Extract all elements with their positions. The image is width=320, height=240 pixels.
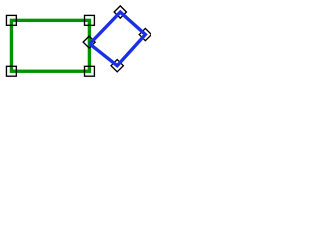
handle rect top-left: [6, 15, 16, 25]
handle rect top-right: [85, 15, 95, 25]
canvas background: [0, 0, 151, 88]
green rectangle shape: [11, 20, 89, 71]
handle diamond top vertex: [114, 6, 126, 18]
blue rotated square shape: [90, 12, 146, 66]
handle diamond left vertex: [83, 36, 95, 48]
handle rect bottom-right: [85, 66, 95, 76]
handle rect bottom-left: [6, 66, 16, 76]
handle diamond bottom vertex: [111, 60, 123, 72]
handle diamond right vertex: [139, 28, 151, 40]
